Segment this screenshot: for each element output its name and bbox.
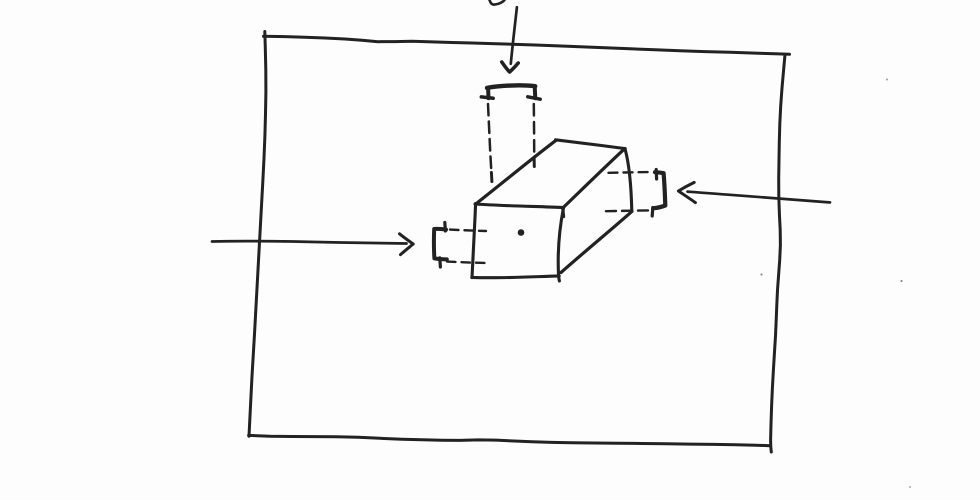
paper speck 2: [900, 280, 902, 282]
left clip bracket: bottom tick: [438, 258, 442, 267]
box: right depth edge (front-top-right to back-top-right): [564, 149, 625, 207]
small tick below front-top-right corner: [561, 209, 565, 217]
box: left depth edge (front-top-left to back-top-left): [477, 140, 556, 203]
partial handwritten letter (cut off at top): [490, 0, 505, 5]
outer hand-drawn frame: left edge: [249, 32, 266, 437]
top staple bracket: left leg: [486, 88, 490, 98]
top staple bracket: left foot: [481, 97, 493, 98]
box: bottom right depth edge: [561, 211, 632, 272]
top arrow head: [502, 62, 518, 72]
left clip bracket: top tick: [443, 223, 447, 232]
solid tick where right leader meets box top face: [533, 158, 536, 167]
paper speck 1: [760, 273, 762, 275]
outer hand-drawn frame: top edge: [264, 36, 790, 54]
right horizontal dashed leader (top): [609, 171, 653, 174]
left arrow shaft: [212, 241, 407, 243]
right clip bracket: bottom tick: [651, 208, 655, 217]
top staple bracket: right foot: [528, 97, 540, 99]
top arrow shaft: [511, 7, 517, 64]
box: front face top edge: [475, 204, 564, 208]
box: back right vertical edge: [625, 149, 632, 211]
box: front face right edge: [558, 208, 563, 281]
paper speck 3: [886, 79, 888, 81]
box: back top edge: [556, 140, 626, 149]
dashed leader from staple left leg down to box top: [488, 104, 491, 169]
right clip bracket: top tick: [655, 170, 659, 180]
top staple bracket: top bar: [487, 85, 535, 88]
dashed leader from staple right leg down to box top: [533, 104, 536, 157]
right clip bracket: body: [653, 172, 665, 208]
top staple bracket: right leg: [533, 86, 538, 98]
right arrow shaft: [688, 192, 831, 203]
outer hand-drawn frame: bottom edge: [249, 435, 770, 445]
box: front face bottom edge: [472, 276, 559, 278]
left horizontal dashed leader (top): [450, 230, 486, 231]
dot on front face: [518, 229, 525, 236]
left clip bracket: body: [434, 229, 447, 259]
box: front face left edge: [472, 204, 476, 278]
left horizontal dashed leader (bottom): [447, 262, 486, 263]
right horizontal dashed leader (bottom): [606, 209, 651, 212]
left arrow head: [400, 234, 414, 255]
solid tick end of left leader above box edge: [490, 173, 494, 182]
right arrow head: [678, 182, 695, 202]
paper speck 4: [909, 486, 911, 488]
outer hand-drawn frame: right edge: [771, 55, 785, 452]
